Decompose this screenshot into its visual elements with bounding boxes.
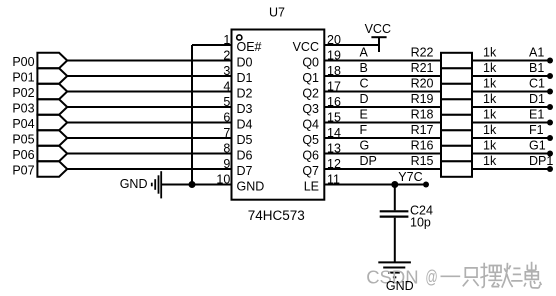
svg-text:U7: U7	[269, 5, 285, 19]
svg-text:Q1: Q1	[302, 71, 319, 85]
svg-text:D4: D4	[237, 117, 253, 131]
svg-text:G: G	[360, 139, 370, 153]
svg-text:11: 11	[327, 172, 340, 186]
svg-text:P07: P07	[12, 164, 34, 178]
svg-text:B: B	[360, 61, 368, 75]
svg-text:Q0: Q0	[302, 55, 319, 69]
svg-text:16: 16	[327, 95, 341, 109]
svg-text:R20: R20	[411, 77, 434, 91]
svg-text:8: 8	[223, 141, 230, 155]
svg-text:Q4: Q4	[302, 117, 319, 131]
svg-text:D2: D2	[237, 86, 253, 100]
svg-text:R17: R17	[411, 123, 434, 137]
svg-text:Q6: Q6	[302, 148, 319, 162]
svg-text:DP: DP	[360, 154, 377, 168]
svg-text:GND: GND	[386, 279, 414, 293]
svg-text:9: 9	[223, 157, 230, 171]
svg-text:Q2: Q2	[302, 86, 319, 100]
svg-text:C1: C1	[529, 77, 545, 91]
svg-text:E1: E1	[529, 108, 544, 122]
svg-text:1: 1	[223, 33, 230, 47]
svg-text:1k: 1k	[483, 61, 497, 75]
svg-text:P01: P01	[12, 71, 34, 85]
svg-text:D3: D3	[237, 102, 253, 116]
svg-text:P05: P05	[12, 133, 34, 147]
svg-text:10: 10	[216, 172, 230, 186]
svg-text:F1: F1	[529, 123, 544, 137]
svg-text:OE#: OE#	[237, 40, 262, 54]
svg-text:F: F	[360, 123, 368, 137]
svg-text:D6: D6	[237, 148, 253, 162]
svg-text:Q5: Q5	[302, 133, 319, 147]
svg-text:C: C	[360, 77, 369, 91]
svg-text:3: 3	[223, 64, 230, 78]
svg-text:LE: LE	[304, 179, 319, 193]
svg-text:GND: GND	[237, 179, 265, 193]
svg-text:17: 17	[327, 79, 341, 93]
svg-text:Y7C: Y7C	[398, 170, 422, 184]
svg-text:5: 5	[223, 95, 230, 109]
svg-text:4: 4	[223, 79, 230, 93]
svg-text:14: 14	[327, 126, 341, 140]
svg-text:2: 2	[223, 48, 230, 62]
svg-text:1k: 1k	[483, 46, 497, 60]
svg-text:R22: R22	[411, 46, 434, 60]
svg-text:6: 6	[223, 110, 230, 124]
svg-text:P06: P06	[12, 148, 34, 162]
svg-text:R18: R18	[411, 108, 434, 122]
svg-text:D1: D1	[529, 92, 545, 106]
svg-text:R21: R21	[411, 61, 434, 75]
svg-text:B1: B1	[529, 61, 544, 75]
svg-text:1k: 1k	[483, 108, 497, 122]
svg-text:74HC573: 74HC573	[248, 208, 305, 223]
svg-text:P03: P03	[12, 102, 34, 116]
svg-text:G1: G1	[529, 139, 546, 153]
svg-text:1k: 1k	[483, 123, 497, 137]
svg-text:R16: R16	[411, 139, 434, 153]
svg-text:E: E	[360, 108, 368, 122]
svg-text:1k: 1k	[483, 154, 497, 168]
svg-text:GND: GND	[120, 177, 148, 191]
svg-text:A: A	[360, 46, 369, 60]
svg-text:10p: 10p	[410, 216, 431, 230]
svg-text:A1: A1	[529, 46, 544, 60]
svg-text:Q7: Q7	[302, 164, 319, 178]
svg-text:D: D	[360, 92, 369, 106]
svg-text:D7: D7	[237, 164, 253, 178]
svg-text:15: 15	[327, 110, 341, 124]
svg-text:DP1: DP1	[529, 154, 553, 168]
svg-text:19: 19	[327, 48, 341, 62]
svg-text:18: 18	[327, 64, 341, 78]
svg-text:P04: P04	[12, 117, 34, 131]
svg-text:D5: D5	[237, 133, 253, 147]
svg-text:20: 20	[327, 33, 341, 47]
svg-text:D1: D1	[237, 71, 253, 85]
svg-text:P02: P02	[12, 86, 34, 100]
svg-text:12: 12	[327, 157, 341, 171]
svg-text:P00: P00	[12, 55, 34, 69]
svg-text:13: 13	[327, 141, 341, 155]
svg-text:7: 7	[223, 126, 230, 140]
svg-text:1k: 1k	[483, 77, 497, 91]
svg-text:R15: R15	[411, 154, 434, 168]
svg-text:D0: D0	[237, 55, 253, 69]
svg-text:R19: R19	[411, 92, 434, 106]
svg-text:@: @	[425, 267, 437, 287]
svg-text:1k: 1k	[483, 92, 497, 106]
svg-text:1k: 1k	[483, 139, 497, 153]
svg-text:VCC: VCC	[365, 22, 391, 36]
svg-text:Q3: Q3	[302, 102, 319, 116]
svg-text:VCC: VCC	[293, 40, 319, 54]
